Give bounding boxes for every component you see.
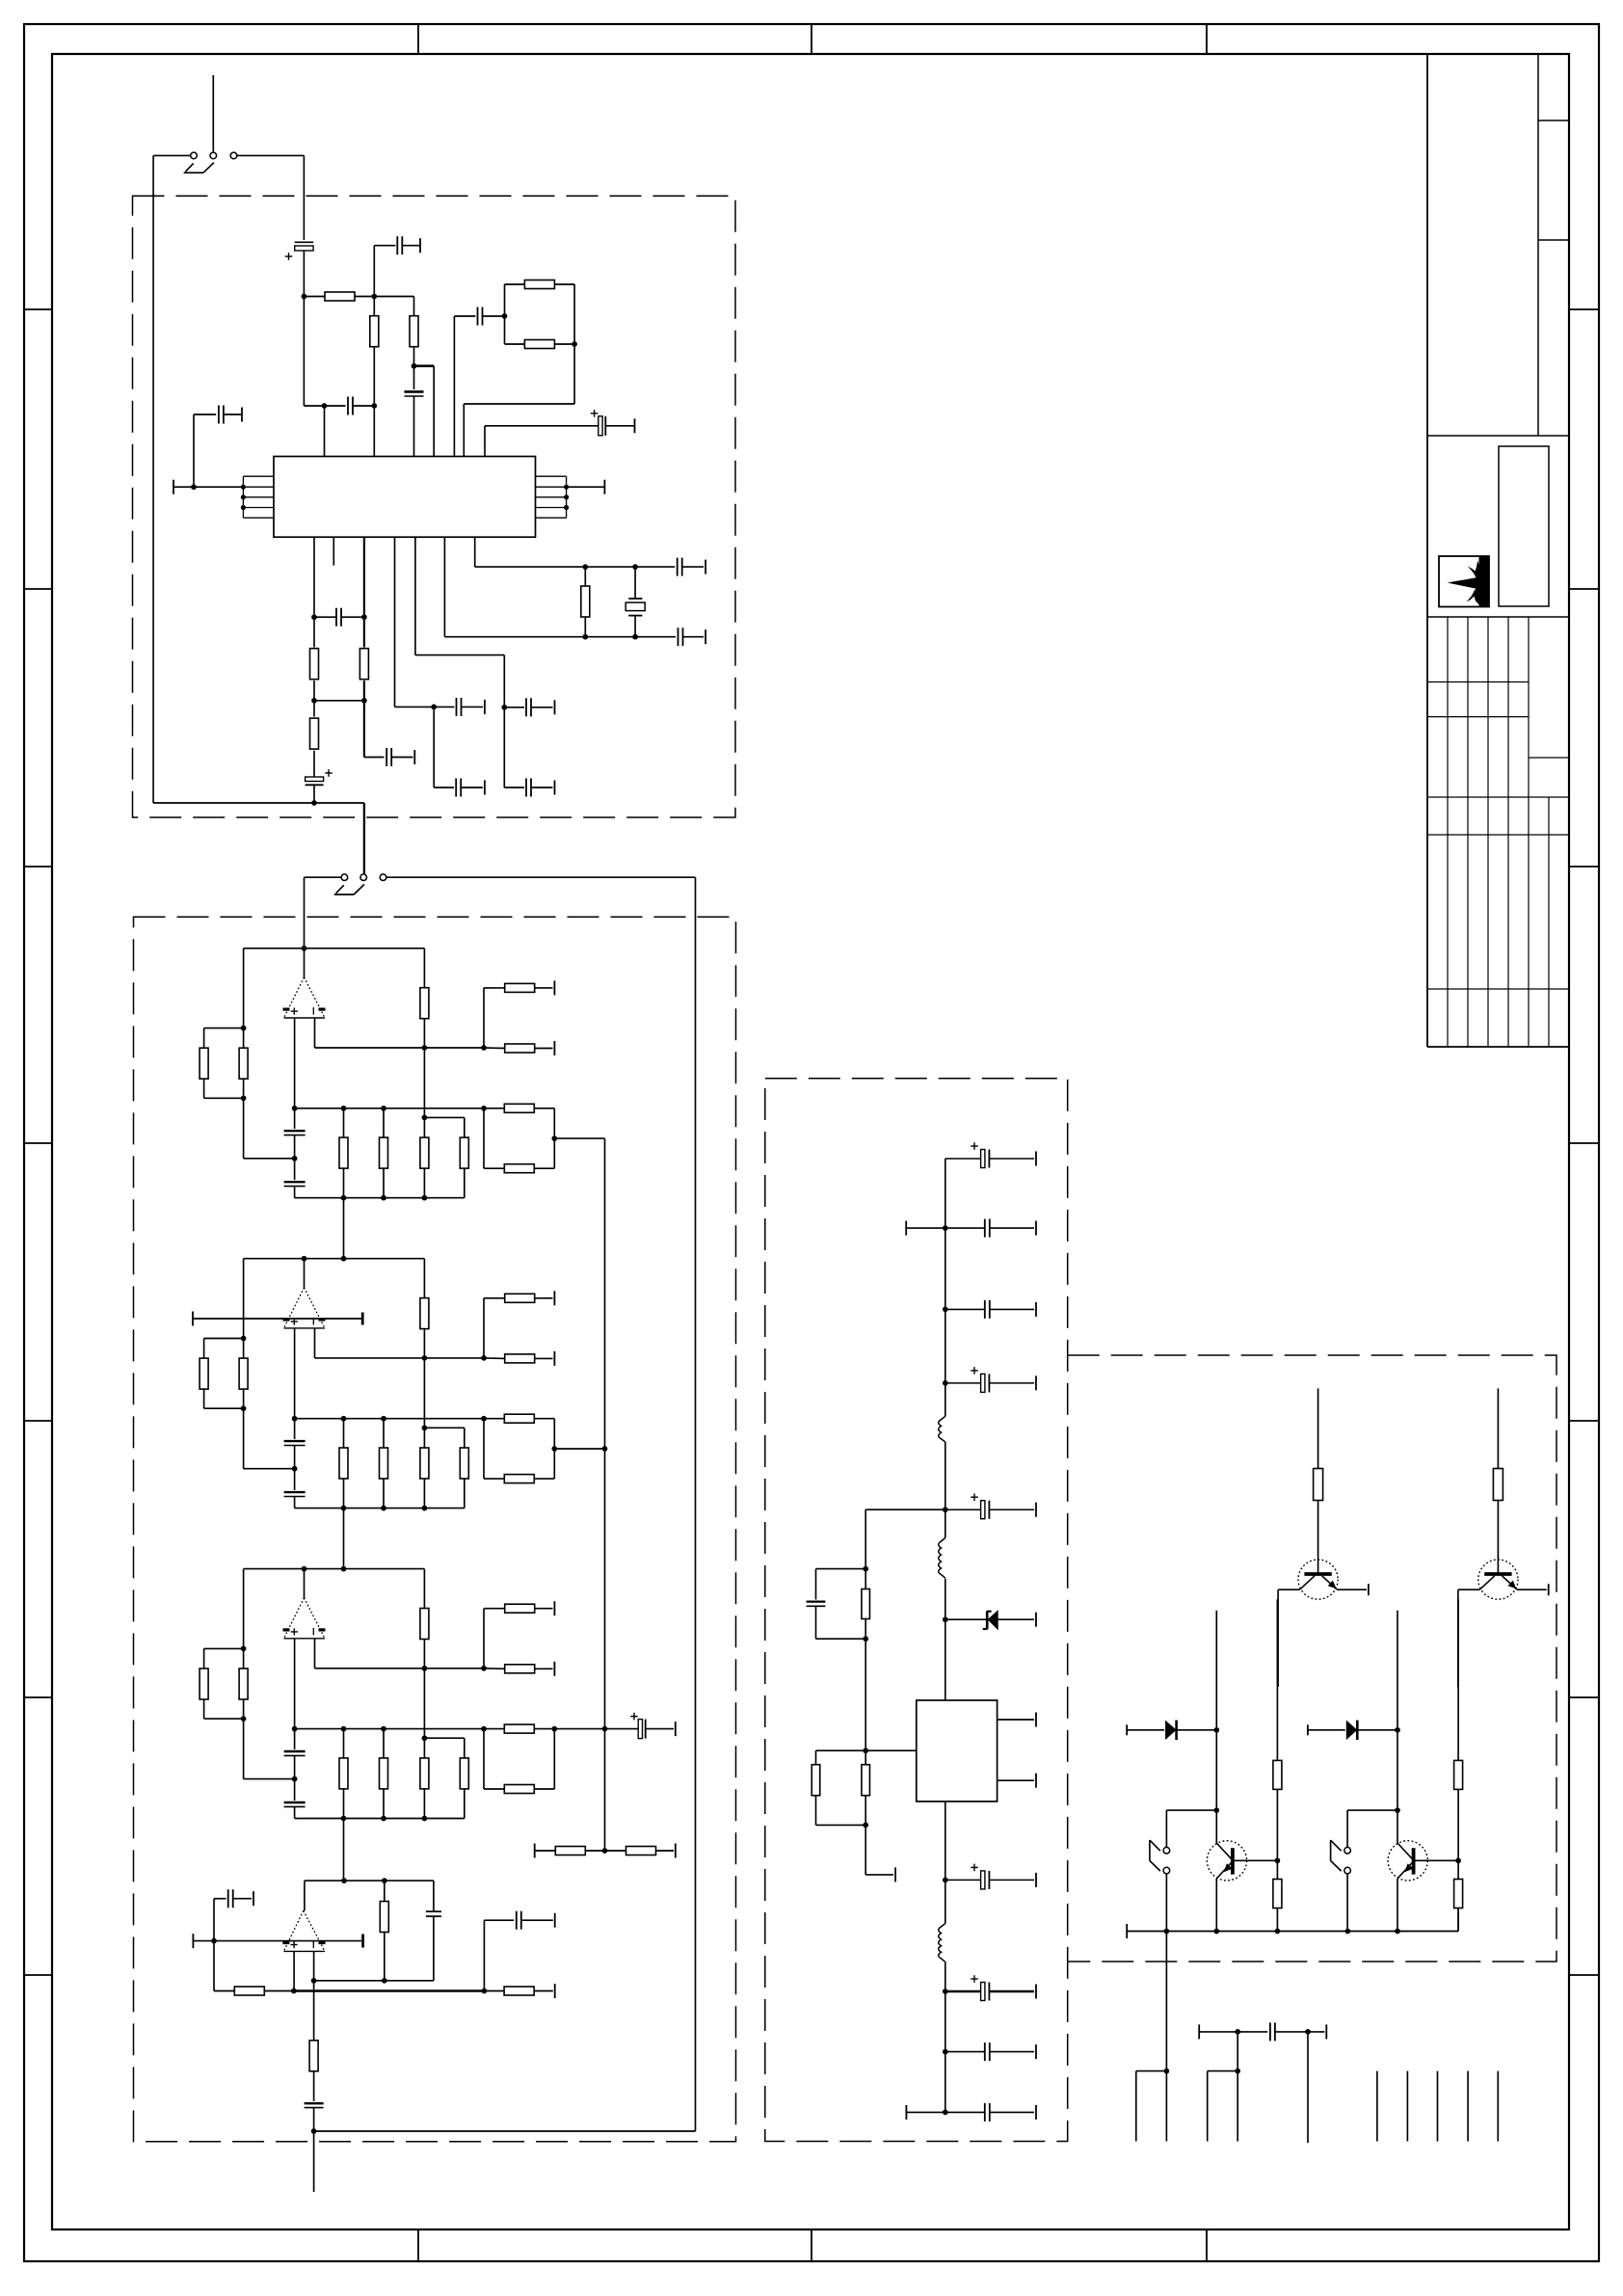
bottom row stage3 [295, 1818, 465, 1820]
output chain stage4 [313, 1981, 315, 2042]
switch S1 pole wire [212, 75, 214, 152]
wire PSU ground stub [865, 1825, 866, 1875]
capacitor PSU C2 [945, 1227, 985, 1229]
capacitor C17 [635, 566, 675, 568]
node chain R chain B [1455, 1857, 1461, 1863]
node row B stage1 [295, 1108, 484, 1109]
bus right side down [695, 877, 697, 2131]
wire node A2 up to C3 [373, 246, 375, 297]
terminal tick stage1 lower-right [553, 1041, 555, 1055]
capacitor stage4 output [305, 2102, 324, 2104]
collector wire Q3 [1215, 1611, 1217, 1843]
IC U1 right pin group [536, 475, 567, 477]
resistor stage2 upper-right [483, 1298, 485, 1358]
diode VD3 [1307, 1724, 1309, 1735]
output divider stage1 [484, 1108, 504, 1109]
wire bus bottom to ground node [314, 2130, 696, 2132]
switch S1 lever [184, 172, 203, 174]
node PSU n3 [943, 1380, 948, 1386]
node stage1 cap mid [292, 1156, 298, 1161]
op-amp U4 [283, 1910, 325, 1951]
node B4 [361, 698, 367, 704]
switch S1 contacts [191, 152, 198, 159]
stub below [313, 2131, 315, 2192]
terminal tick PSU ground [894, 1867, 896, 1882]
zener diode VD1 [945, 1618, 986, 1620]
wire left rail down [152, 155, 154, 803]
resistor R6 parallel pair bottom [524, 340, 554, 349]
bottom row stage1 [295, 1197, 465, 1199]
node A5 [412, 363, 417, 369]
capacitor PSU C1 electrolytic [945, 1158, 981, 1160]
left parallel resistors stage3 [243, 1569, 245, 1649]
dashed box radio unit [133, 196, 736, 817]
left parallel resistors stage2 [243, 1259, 245, 1339]
op-amp U3 [284, 1598, 326, 1639]
feedback resistor stage4 [384, 1881, 386, 1902]
base wire Q3 [1233, 1859, 1278, 1861]
node X2 [632, 564, 638, 570]
node PSU d3 [863, 1748, 868, 1753]
stage 1 node row [244, 948, 425, 949]
inductor L1 [945, 1383, 946, 1416]
wire A1 down to A3 [303, 297, 305, 407]
node B5 [311, 800, 317, 806]
capacitor stage1 upper [294, 1108, 296, 1129]
terminal tick C14 [554, 700, 556, 714]
connector glyph A [1135, 2071, 1137, 2142]
node stage3 T-junction [422, 1735, 428, 1741]
resistor stage3 lower-right [484, 1668, 505, 1670]
node ground out [311, 2128, 317, 2134]
terminal tick right [603, 480, 605, 494]
resistor stage1 lower-right [484, 1047, 505, 1050]
node A2 [371, 294, 377, 300]
wire A4 to IC1 pin [373, 406, 375, 457]
terminal tick stage4 row [554, 1984, 556, 1998]
terminal tick stage4 bypass [554, 1913, 556, 1928]
node PSU n7 [943, 2049, 948, 2055]
node stage1 bias [481, 1045, 487, 1051]
output ground rail [1126, 1924, 1128, 1938]
capacitor stage2 upper [294, 1419, 296, 1439]
resistor stage2 lower-right [484, 1357, 505, 1360]
node conn cap right [1305, 2029, 1311, 2035]
capacitor stage2 lower [294, 1469, 296, 1490]
capacitor stage3 lower [294, 1779, 296, 1801]
node A4 [371, 403, 377, 409]
wire A7 to IC1 pin [573, 344, 575, 404]
node PSU d2 [863, 1636, 868, 1642]
connector cap row [1198, 2024, 1200, 2039]
terminal tick stage2 upper-right [553, 1291, 555, 1305]
node stage3 bias [481, 1666, 487, 1671]
wire switch S3 top [1165, 1810, 1167, 1848]
node PSU n1 [943, 1225, 948, 1231]
switch S2 lever [334, 894, 354, 895]
bottom row stage2 [295, 1508, 465, 1509]
capacitor C13 [433, 707, 435, 788]
stage 2 node row [244, 1258, 425, 1260]
title block divider y452 [1427, 435, 1569, 437]
node PSU n8 [943, 2110, 948, 2116]
right edge zone marks [1569, 308, 1599, 310]
node PSU n2 [943, 1307, 948, 1313]
resistor R8 [363, 617, 365, 647]
op-amp U4 noninverting input wire [293, 1951, 295, 1990]
switch S3 [1163, 1847, 1170, 1854]
inductor L2 [945, 1509, 946, 1537]
capacitor stage3 out electrolytic [605, 1728, 640, 1730]
resistor stage4 left [214, 1990, 234, 1992]
node A3 [322, 403, 328, 409]
node A1 [302, 294, 307, 300]
node PSU d4 [863, 1823, 868, 1829]
resistor R10 [584, 567, 586, 586]
output divider stage2 [484, 1418, 504, 1420]
title block top cell dividers [1538, 120, 1569, 121]
resistor chain lower R chain A [1276, 1860, 1278, 1879]
node B3 [311, 698, 317, 704]
wire IC pin to node B6 [394, 537, 396, 707]
resistor pair PSU lower [816, 1749, 866, 1751]
node stage4 right [482, 1989, 488, 1994]
capacitor stage4 bypass [483, 1920, 485, 1990]
collector wire Q4 [1397, 1611, 1398, 1843]
capacitor PSU C3 [945, 1308, 985, 1310]
wire stage3 left chain to cap node [243, 1719, 245, 1779]
terminal tick C3 [419, 238, 421, 253]
left parallel resistors stage1 [243, 948, 245, 1028]
wire PSU to reg divider [865, 1508, 945, 1510]
top edge centering marks [417, 24, 419, 54]
node stage4 fb [311, 1978, 317, 1984]
bottom edge centering marks [417, 2229, 419, 2261]
feedback resistor stage2 [423, 1259, 425, 1298]
network resistors stage2 [343, 1419, 345, 1449]
title block table rows [1427, 681, 1529, 683]
resistor R9 [313, 701, 315, 717]
thick row stage4 [294, 1989, 485, 1991]
title block table columns [1447, 617, 1449, 1047]
node PSU d1 [863, 1566, 868, 1572]
node bus stage3 row [602, 1726, 608, 1732]
capacitor PSU C5 electrolytic [945, 1508, 981, 1510]
wire node d3 to regulator [865, 1749, 917, 1751]
op-amp U1 [284, 977, 326, 1018]
node stage2 bias [481, 1355, 487, 1361]
left edge zone marks [24, 308, 52, 310]
terminal tick C7 [634, 418, 636, 433]
transistor Q4 [1388, 1841, 1427, 1881]
capacitor PSU C9 [945, 2111, 985, 2113]
node row B stage3 [295, 1728, 484, 1730]
node diode VD3 [1395, 1727, 1400, 1733]
capacitor C15 [503, 707, 505, 788]
terminal tick left [173, 480, 174, 494]
node stage4 mid [291, 1989, 297, 1994]
node stage4 fb2 [382, 1978, 387, 1984]
PSU rail top corner [945, 1159, 946, 1383]
node bus stage2 [602, 1446, 608, 1452]
capacitor stage3 upper [294, 1729, 296, 1749]
resistor R5 parallel pair top [504, 284, 506, 344]
resistor chain lower R chain B [1457, 1860, 1459, 1879]
inductor L3 [945, 1880, 946, 1923]
bus stage outputs [604, 1138, 606, 1851]
capacitor C2 [325, 405, 346, 407]
wire S1 left contact to left rail [153, 154, 191, 156]
op-amp U1 noninverting input wire [294, 1018, 296, 1108]
terminal tick C11 [413, 750, 415, 764]
dashed box output unit [1068, 1355, 1556, 1962]
IC pin stub NC [333, 537, 334, 565]
node row B stage2 [295, 1418, 484, 1420]
resistor R2 [373, 297, 375, 317]
node stage2 T-junction [422, 1425, 428, 1430]
resistor chain upper R chain B [1457, 1599, 1459, 1760]
feedback bottom wire stage4 [314, 1980, 434, 1982]
terminal tick stage1 upper-right [553, 980, 555, 995]
node glyph B [1235, 2069, 1240, 2074]
title block top column line [1537, 54, 1539, 436]
node A6 [502, 313, 508, 319]
stage 1 tap node [551, 1135, 557, 1141]
wire S1 right contact to C1 [237, 154, 305, 156]
feedback resistor stage3 [423, 1569, 425, 1609]
node X1 [582, 564, 588, 570]
wire ground row [153, 802, 314, 804]
terminal tick C15 [554, 781, 556, 795]
feedback cap stage4 [433, 1881, 435, 1911]
node X3 [582, 634, 588, 640]
node A8 [191, 484, 197, 490]
wire stage2 feedback down [423, 1358, 425, 1428]
wire A3 to IC1 pin [324, 406, 326, 457]
wire conn cap right down [1307, 2032, 1309, 2143]
wire IC pin crystal bottom row [443, 537, 445, 637]
resistor stage4 right [484, 1990, 504, 1992]
resistor chain upper R chain A [1276, 1599, 1278, 1760]
node B6 [431, 705, 437, 710]
capacitor PSU C8 [945, 2051, 985, 2053]
terminal tick C13 [484, 781, 486, 795]
resistor R7 [313, 617, 315, 647]
terminal tick zener [1035, 1613, 1037, 1627]
wire switch S4 top [1346, 1810, 1348, 1848]
base resistor Q x1367.6 [1314, 1469, 1323, 1501]
title block divider y640 [1427, 616, 1569, 618]
stage 4 node row [305, 1880, 434, 1882]
capacitor C11 [363, 701, 365, 758]
node B2 [361, 614, 367, 620]
node PSU n5 [943, 1878, 948, 1883]
capacitor C16 [635, 636, 676, 638]
wire switch S4 bottom [1346, 1873, 1348, 1931]
node X4 [632, 634, 638, 640]
capacitor PSU C6 electrolytic [945, 1879, 981, 1881]
feedback resistor stage1 [423, 948, 425, 988]
regulator right pin lower [998, 1779, 1034, 1781]
transistor Q at x1554.4 [1478, 1560, 1518, 1599]
resistor R1 [304, 296, 324, 298]
wire stage1 left chain to cap node [243, 1098, 245, 1159]
wire PSU divider down [865, 1639, 866, 1750]
op-amp U2 [284, 1288, 326, 1328]
dashed box power supply unit [765, 1079, 1068, 2142]
resistor stage3 upper-right [483, 1609, 485, 1669]
node stage3 feedback [422, 1666, 428, 1671]
node conn cap left [1235, 2029, 1240, 2035]
dashed box amplifier unit [134, 917, 736, 2142]
title block tall field rectangle [1499, 446, 1549, 606]
RC pair PSU upper [816, 1568, 866, 1570]
node B7 [501, 705, 507, 710]
wire stage3 feedback down [423, 1669, 425, 1738]
terminal tick stage3 divider [675, 1844, 677, 1858]
stage 2 tap node [551, 1446, 557, 1452]
network resistors stage3 [343, 1729, 345, 1759]
terminal tick stage2 lower-right [553, 1351, 555, 1366]
crystal Y1 [634, 567, 636, 599]
node PSU n4 [943, 1507, 948, 1512]
node B1 [311, 614, 317, 620]
switch S2 contacts [341, 874, 348, 881]
node stage1 feedback [422, 1045, 428, 1051]
node stage3 cap mid [292, 1776, 298, 1782]
wire node ref down [213, 1941, 215, 1991]
diode VD2 [1126, 1724, 1128, 1735]
IC U1 body [274, 457, 536, 538]
wire node A5 stub right [414, 364, 435, 367]
stage 3 node row [244, 1568, 425, 1570]
stage 3 bottom divider row [534, 1844, 536, 1858]
node stage4 ref [211, 1938, 217, 1944]
stage 2 reference line [192, 1312, 194, 1326]
wire IC pin thick to node B2 [363, 537, 365, 617]
node base link Q3 [1213, 1807, 1219, 1813]
op-amp U4 inverting input wire [313, 1951, 315, 1980]
terminal tick C8 [241, 408, 243, 422]
terminal tick conn cap [1325, 2024, 1327, 2039]
resistor R3 [374, 296, 413, 298]
capacitor C7 electrolytic [484, 426, 486, 457]
wire IC pin to node B1 [313, 537, 315, 617]
op-amp U1 inverting input wire [314, 1018, 316, 1048]
node glyph A [1164, 2069, 1170, 2074]
capacitor PSU C4 electrolytic [945, 1382, 981, 1384]
resistor stage1 upper-right [483, 988, 485, 1048]
stage 1 to stage 2 link [343, 1198, 345, 1259]
transistor Q3 [1207, 1841, 1246, 1881]
rail nodes [1164, 1929, 1170, 1935]
capacitor PSU C7 electrolytic thick [945, 1990, 981, 1992]
capacitor C14 [504, 707, 524, 708]
capacitor stage4 input [213, 1899, 215, 1941]
node stage2 feedback [422, 1355, 428, 1361]
transistor Q at x1367.6 [1298, 1560, 1338, 1599]
IC U1 left pin group [243, 475, 274, 477]
network resistors stage1 [343, 1108, 345, 1138]
wire stage2 left chain to cap node [243, 1408, 245, 1469]
capacitor stage1 lower [294, 1159, 296, 1180]
base resistor Q x1554.4 [1493, 1469, 1503, 1501]
wire regulator bottom [945, 1802, 946, 1881]
terminal tick stage3 lower-right [553, 1662, 555, 1676]
wire right pins to terminal [567, 486, 605, 488]
node stage3 divider [602, 1848, 608, 1854]
capacitor C8 [193, 414, 195, 487]
node stage2 cap mid [292, 1466, 298, 1472]
wire S3 down to connector [1165, 1932, 1167, 2071]
capacitor C6 [453, 316, 455, 457]
stage 4 reference line [192, 1934, 194, 1948]
node stage1 T-junction [422, 1115, 428, 1121]
output divider stage3 [484, 1728, 504, 1730]
node chain R chain A [1275, 1857, 1281, 1863]
capacitor C3 [396, 236, 398, 254]
connector glyph B [1207, 2071, 1209, 2142]
base wire Q4 [1413, 1859, 1458, 1861]
logo silhouette [1448, 556, 1489, 606]
terminal tick stage4 input cap [253, 1891, 254, 1906]
capacitor C10 electrolytic [306, 777, 324, 782]
terminal tick C12 [484, 700, 486, 714]
op-amp U2 noninverting input wire [294, 1328, 296, 1419]
node A7 [572, 341, 577, 347]
op-amp U2 inverting input wire [314, 1328, 316, 1358]
capacitor C5 [413, 366, 415, 389]
logo box [1439, 556, 1489, 607]
wire switch S3 bottom [1165, 1873, 1167, 1931]
node PSU n6 [943, 1989, 948, 1994]
stage 3 to stage 4 link [343, 1819, 345, 1882]
wire to regulator top [945, 1619, 946, 1700]
capacitor C1 electrolytic [295, 241, 313, 243]
connector pin bars [1376, 2071, 1378, 2142]
node base link Q4 [1395, 1807, 1400, 1813]
terminal tick stage3 upper-right [553, 1601, 555, 1615]
regulator right pin upper [998, 1719, 1034, 1721]
capacitor C9 [314, 616, 336, 618]
capacitor C12 [434, 706, 454, 707]
op-amp U3 inverting input wire [314, 1639, 316, 1669]
voltage regulator U5 [917, 1700, 998, 1802]
op-amp U3 noninverting input wire [294, 1639, 296, 1729]
title block outline [1426, 54, 1428, 1047]
terminal tick stage3 out [675, 1722, 677, 1736]
switch S4 [1344, 1847, 1351, 1854]
node diode VD2 [1213, 1727, 1219, 1733]
stage 2 to stage 3 link [343, 1508, 345, 1569]
terminal tick C16 [705, 629, 706, 644]
wire IC pin crystal top row [474, 537, 476, 567]
wire left pins to terminal [194, 486, 243, 488]
rail end corner [1457, 1909, 1459, 1932]
node PSU zener [943, 1616, 948, 1622]
terminal tick C17 [705, 560, 706, 574]
wire S2 left contact to stage1 input [305, 876, 342, 878]
wire stage1 feedback down [423, 1048, 425, 1117]
wire IC pin to node B7 [414, 537, 416, 654]
wire S2 right contact to bus [386, 876, 696, 878]
